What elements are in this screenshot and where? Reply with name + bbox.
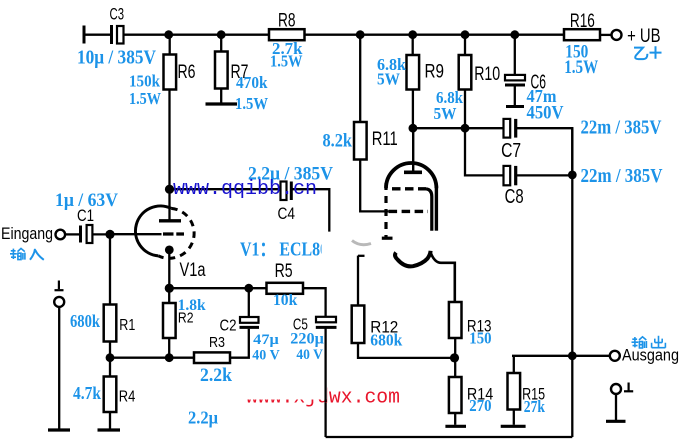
tick at R12 top [358, 255, 365, 257]
svg-text:47μ: 47μ [253, 332, 279, 348]
svg-text:450V: 450V [527, 103, 564, 124]
node dot cathode junction [165, 284, 174, 293]
capacitor C7 [504, 119, 516, 138]
pentode control grid g1 (dashed) [389, 210, 428, 213]
wire R12 top lead [357, 256, 359, 306]
resistor R4 [104, 377, 117, 413]
pentode envelope arch [382, 163, 437, 238]
wire R9 bottom to plate node [412, 90, 414, 129]
svg-text:150k: 150k [129, 72, 160, 91]
resistor R5 (horizontal) [267, 283, 304, 294]
wire R11 top [359, 35, 361, 122]
fade mask over left part of red watermark [240, 382, 327, 400]
ground bar R7 [206, 102, 238, 105]
terminal Eingang [56, 230, 66, 240]
node dot C4 tap [165, 185, 174, 194]
wire R12 bottom to node [358, 343, 455, 358]
resistor R10 [459, 55, 472, 90]
svg-text:27k: 27k [524, 397, 546, 416]
wire bottom feedback rail [326, 436, 573, 438]
wire plate node horizontal (R9 bottom to C7) [413, 127, 504, 129]
wire R4 bottom [109, 412, 111, 429]
faint cathode remnant left [352, 241, 371, 245]
wire terminal to C1 [65, 233, 79, 235]
wire cathode node right [169, 287, 266, 289]
wire R9 top [412, 35, 414, 55]
wire C1 to grid node [92, 233, 110, 235]
capacitor C8 [504, 166, 516, 185]
wire input node down to R1 [109, 234, 111, 304]
input stub terminal bar (left of C3) [83, 26, 86, 44]
svg-text:10μ / 385V: 10μ / 385V [77, 47, 156, 69]
ground bar R14 [445, 425, 466, 428]
svg-text:220μ: 220μ [290, 330, 324, 347]
wire C8 right to output column [516, 174, 573, 176]
svg-text:4.7k: 4.7k [73, 383, 101, 403]
top supply rail wire [124, 34, 565, 36]
wire R14 bottom [454, 413, 456, 425]
wire R10 bottom [464, 90, 466, 129]
ground terminal right (circle with bar) [606, 383, 633, 422]
node dot C6 junction [510, 30, 519, 39]
capacitor C2 [240, 288, 260, 327]
wire R14 top [454, 358, 456, 377]
wire output column vertical [571, 128, 573, 437]
wire R7 top [220, 35, 222, 52]
node dot R10/C8 branch [461, 124, 470, 133]
wire output node horizontal [512, 355, 610, 357]
svg-text:1.5W: 1.5W [235, 94, 268, 113]
pentode cathode arc [395, 251, 431, 267]
svg-text:5W: 5W [377, 70, 400, 89]
node dot C2/R5 [244, 284, 253, 293]
terminal Ausgang [610, 351, 620, 361]
resistor R8 (horizontal) [269, 29, 305, 40]
wire R2 top [168, 288, 170, 303]
terminal UB [612, 30, 622, 40]
wire cathode down [168, 250, 170, 288]
svg-text:1μ / 63V: 1μ / 63V [55, 190, 118, 211]
resistor R7 [215, 52, 228, 89]
resistor R2 [163, 303, 176, 338]
wire C4 right stub [291, 189, 329, 231]
resistor R13 [449, 302, 462, 338]
wire R4 top [109, 358, 111, 377]
svg-text:22m / 385V: 22m / 385V [581, 165, 663, 187]
svg-text:C7: C7 [501, 140, 521, 162]
svg-text:R6: R6 [178, 62, 196, 83]
wire cathode pip to R13 [431, 253, 455, 303]
blue CJK: yi+ (B+) [634, 46, 662, 59]
svg-text:V1a: V1a [180, 260, 206, 281]
svg-text:1.5W: 1.5W [270, 52, 303, 71]
wire R16 to UB terminal [600, 34, 611, 36]
pentode screen grid g2 (dashed, bends right) [392, 189, 432, 231]
wire R1 bottom [109, 342, 111, 358]
wire R2 bottom [168, 338, 170, 358]
node dot R11 junction [356, 30, 365, 39]
svg-text:R9: R9 [425, 62, 445, 83]
capacitor C3 [112, 25, 124, 44]
pentode plate bar [404, 171, 422, 175]
svg-text:+ UB: + UB [627, 26, 661, 47]
wire R6 top [169, 35, 171, 55]
svg-text:R2: R2 [178, 311, 194, 327]
svg-text:R11: R11 [372, 129, 398, 150]
wire C7 right to output column [516, 128, 573, 175]
node dot R1/R4 [106, 353, 115, 362]
svg-text:Eingang: Eingang [1, 225, 53, 243]
ground terminal left (bar over circle) [48, 281, 70, 431]
ground bar R4 [98, 428, 121, 431]
svg-text:C3: C3 [110, 5, 125, 24]
resistor R6 [164, 55, 177, 90]
resistor R1 [104, 305, 117, 342]
resistor R3 (horizontal) [194, 352, 230, 363]
resistor R11 [354, 122, 367, 160]
wire R6 bottom to triode plate [168, 89, 170, 220]
svg-text:V1： ECL80: V1： ECL80 [240, 239, 328, 261]
svg-text:R5: R5 [275, 261, 293, 282]
resistor R15 [508, 373, 521, 410]
wire R5 right to C5 [303, 288, 326, 317]
capacitor C6 [505, 35, 525, 107]
svg-text:R16: R16 [570, 11, 595, 32]
node dot R10 junction [461, 30, 470, 39]
svg-text:R1: R1 [119, 317, 135, 334]
svg-text:C2: C2 [220, 318, 237, 335]
wire R10 top [464, 35, 466, 55]
svg-text:270: 270 [469, 396, 491, 415]
wire stub to C3 [84, 34, 110, 36]
resistor R14 [449, 377, 462, 413]
wire R13 bottom [454, 338, 456, 358]
node dot R12/R13/R14 [450, 353, 459, 362]
svg-text:Ausgang: Ausgang [622, 345, 679, 364]
svg-text:R10: R10 [474, 64, 500, 85]
svg-text:22m / 385V: 22m / 385V [581, 117, 662, 139]
svg-text:5W: 5W [434, 104, 457, 123]
wire R1R4 node to R3 [110, 357, 194, 359]
svg-text:680k: 680k [70, 311, 100, 331]
triode V1a envelope circle [135, 206, 194, 258]
node dot output [568, 351, 577, 360]
node dot C7/C8 join [568, 171, 577, 180]
node dot grid input [105, 230, 114, 239]
wire R15 top [513, 356, 515, 373]
svg-text:680k: 680k [370, 330, 402, 349]
wire grid lead from input node [110, 233, 162, 235]
redraw C5 line over mask [324, 382, 326, 402]
svg-text:C8: C8 [505, 186, 524, 208]
svg-text:R4: R4 [119, 389, 136, 406]
resistor R9 [407, 55, 420, 90]
node dot C3/R6 junction [164, 30, 173, 39]
capacitor C1 [81, 225, 93, 243]
triode grid (dashed) [163, 232, 184, 235]
triode cathode dot [165, 246, 174, 255]
wire R7 bottom [220, 89, 222, 103]
ground bar R15 [501, 425, 526, 428]
svg-text:470k: 470k [236, 73, 268, 92]
svg-text:www.qqibb.cn: www.qqibb.cn [173, 178, 317, 201]
svg-text:1.5W: 1.5W [564, 57, 598, 78]
svg-text:40 V: 40 V [252, 348, 280, 364]
wire plate lead [412, 128, 414, 172]
wire R3 right to C2 [230, 329, 249, 358]
wire R15 bottom [513, 410, 515, 425]
wire R10 node down to C8 [465, 128, 504, 175]
node dot R7 junction [217, 30, 226, 39]
svg-text:R3: R3 [209, 335, 225, 351]
blue CJK: shu-ru (input) [10, 248, 25, 259]
blue CJK: shu-chu (output) [632, 336, 666, 348]
capacitor C4 [281, 182, 292, 201]
resistor R12 [352, 306, 365, 344]
node dot R9 junction [408, 30, 417, 39]
capacitor C5 [316, 317, 337, 437]
svg-text:R8: R8 [278, 10, 296, 31]
svg-text:40 V: 40 V [296, 347, 323, 363]
wire R11 bottom to grid [360, 160, 388, 212]
svg-text:1.5W: 1.5W [129, 89, 161, 108]
node dot R2 bottom [165, 353, 174, 362]
svg-text:150: 150 [469, 329, 491, 348]
svg-text:8.2k: 8.2k [323, 131, 353, 152]
resistor R16 (horizontal) [564, 29, 600, 40]
triode plate bar [159, 219, 181, 222]
node dot plate/R9 [409, 124, 418, 133]
svg-text:C4: C4 [278, 204, 296, 223]
svg-text:10k: 10k [273, 292, 297, 309]
svg-text:2.2k: 2.2k [200, 365, 232, 386]
wire C4 branch [170, 188, 281, 190]
svg-text:2.2μ: 2.2μ [188, 408, 218, 428]
